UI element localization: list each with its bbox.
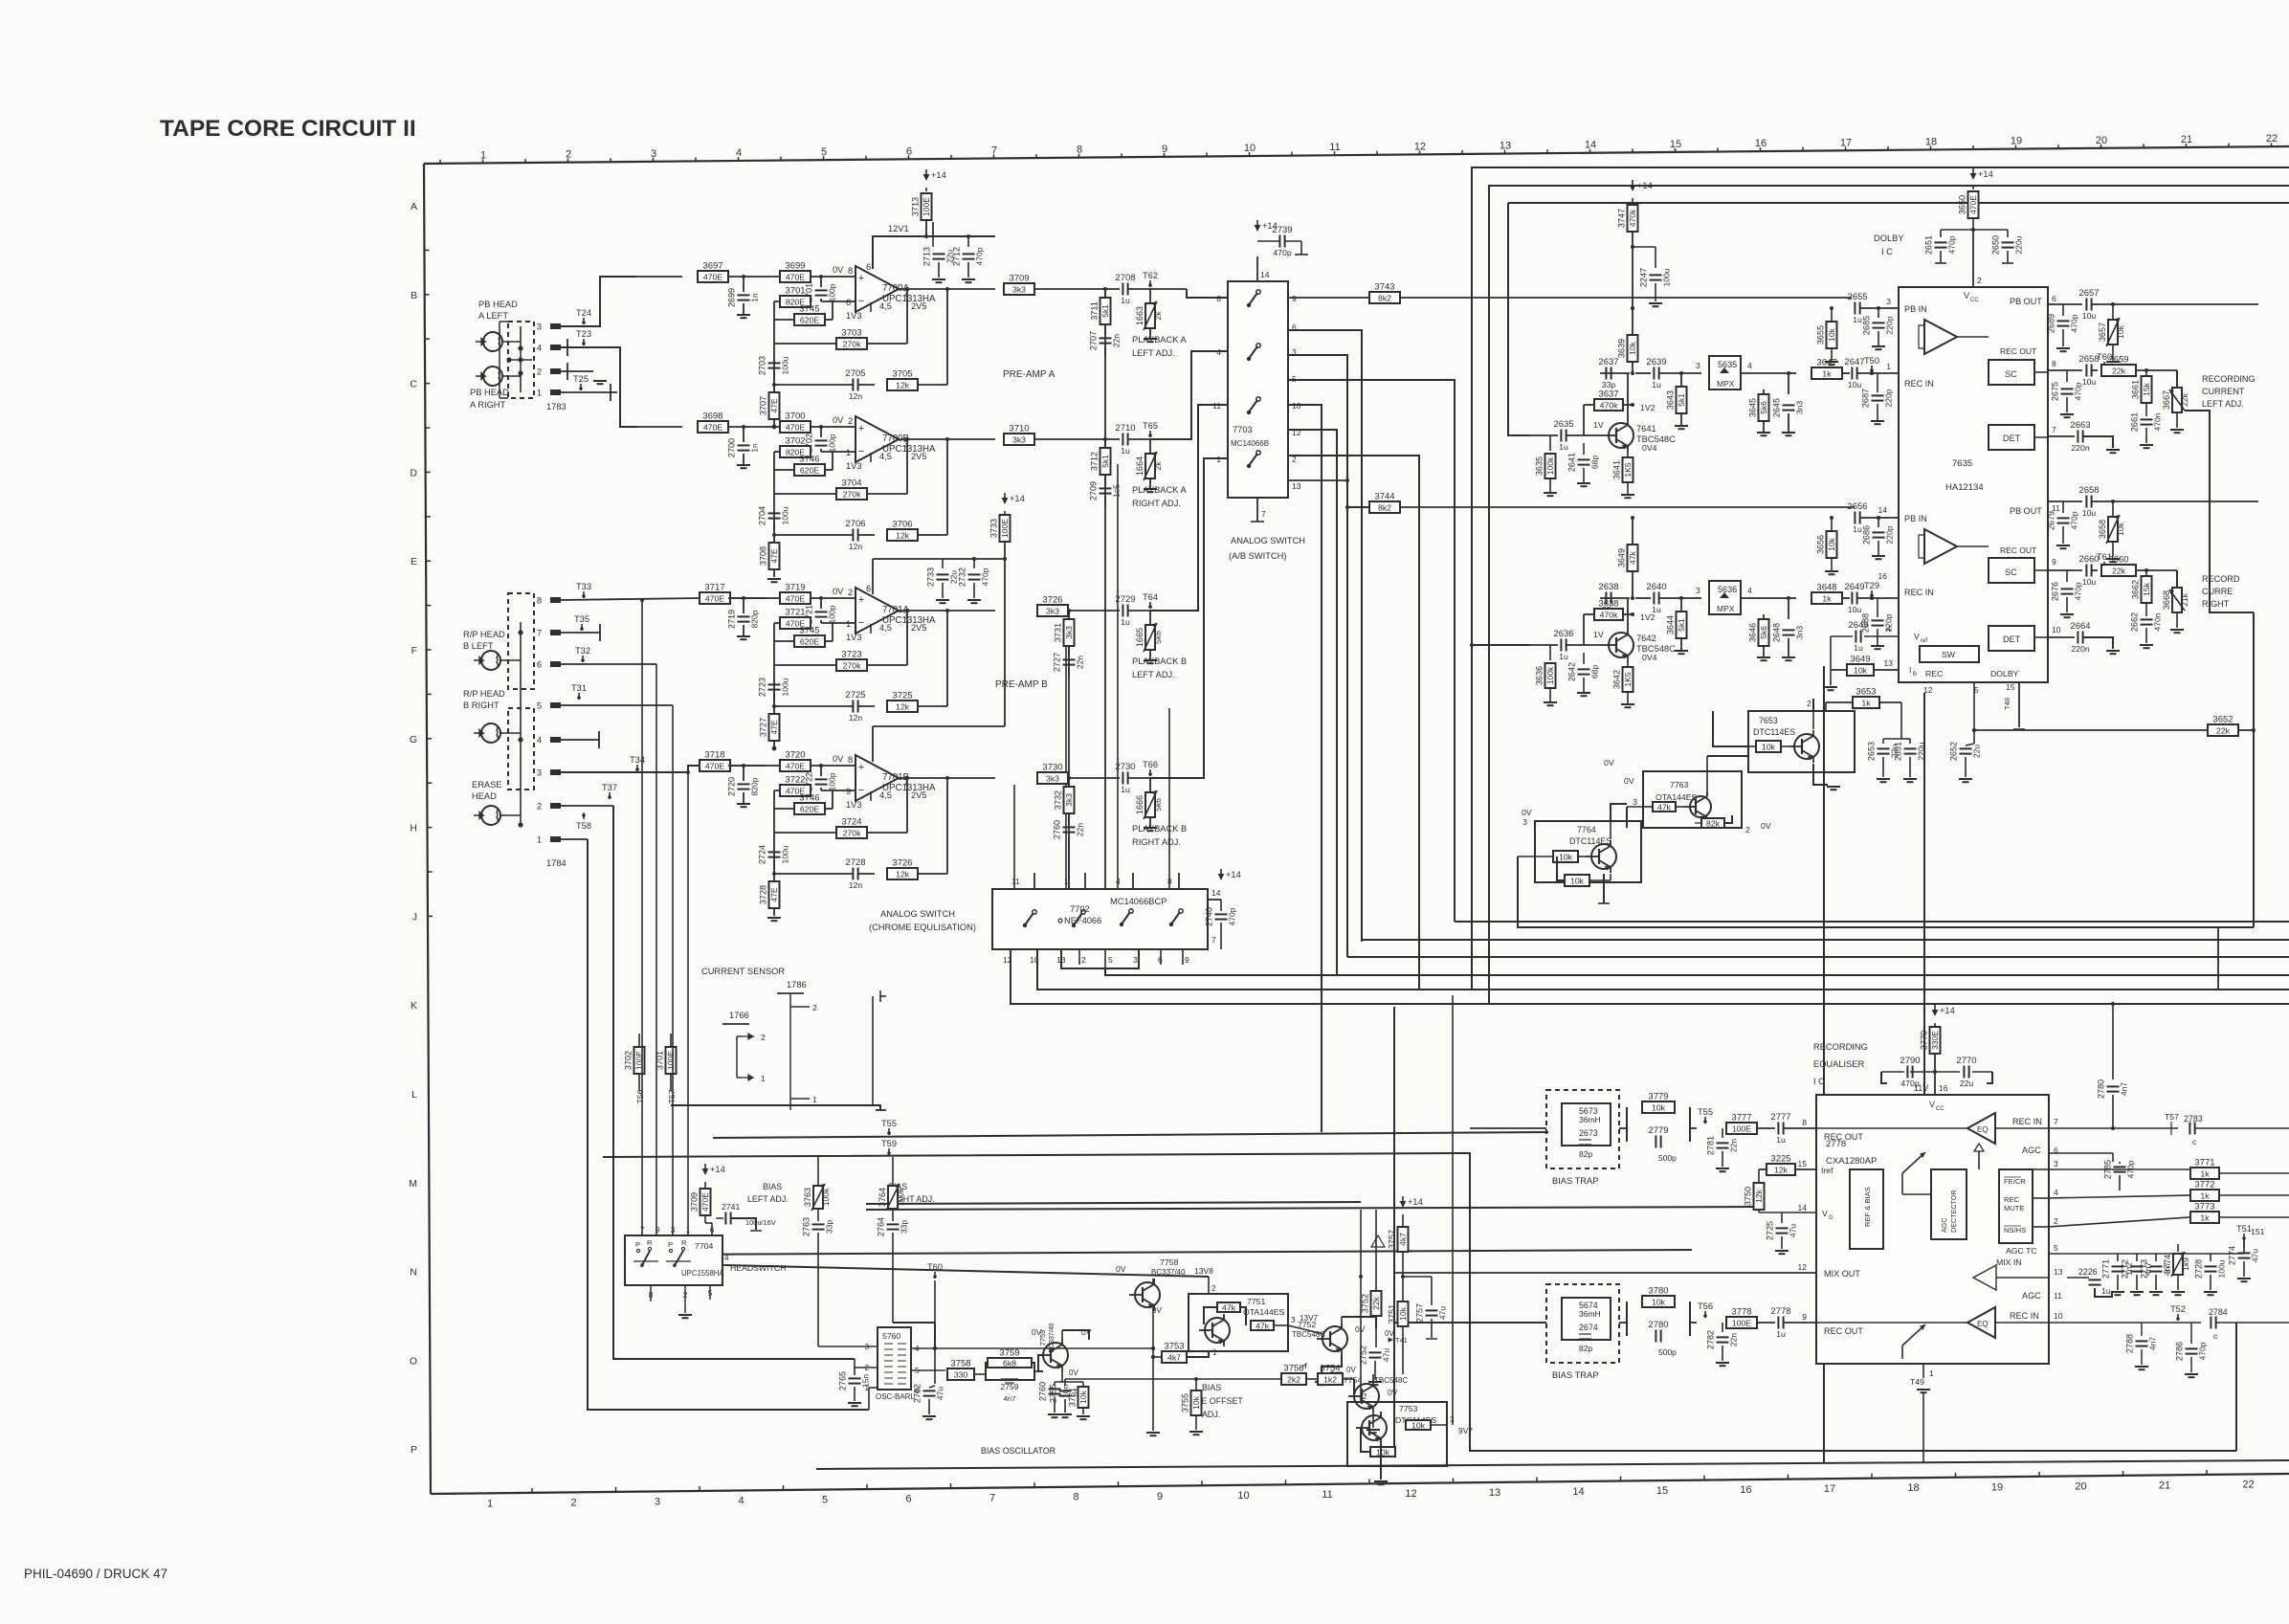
svg-text:1u: 1u bbox=[1121, 617, 1130, 627]
Dolby REC OUT pin 9 bbox=[2034, 557, 2056, 570]
svg-text:5k6: 5k6 bbox=[1759, 626, 1768, 639]
capacitor 2650 220u bbox=[1973, 230, 2024, 263]
rec eq pin 3 bbox=[2033, 1159, 2058, 1169]
svg-text:4: 4 bbox=[1747, 361, 1752, 370]
svg-text:9V7: 9V7 bbox=[1458, 1426, 1473, 1435]
svg-text:100E: 100E bbox=[1732, 1318, 1751, 1327]
svg-text:3700: 3700 bbox=[785, 412, 805, 422]
svg-text:2: 2 bbox=[848, 416, 853, 426]
svg-text:1V3: 1V3 bbox=[846, 461, 862, 471]
svg-text:3724: 3724 bbox=[841, 817, 861, 828]
Dolby REC DOLBY bottom labels bbox=[1923, 669, 2019, 695]
svg-text:+14: +14 bbox=[1637, 181, 1653, 190]
Dolby pin 2 Vcc +14 bbox=[1964, 230, 1982, 303]
svg-text:(CHROME EQULISATION): (CHROME EQULISATION) bbox=[869, 923, 976, 932]
svg-text:470E: 470E bbox=[1968, 195, 1978, 214]
svg-text:12k: 12k bbox=[896, 869, 910, 879]
wire vertical x1457 mix out bbox=[1393, 1007, 1395, 1451]
svg-text:7753: 7753 bbox=[1399, 1404, 1417, 1413]
svg-text:MIX IN: MIX IN bbox=[1996, 1257, 2022, 1267]
svg-text:2699: 2699 bbox=[727, 288, 737, 307]
svg-text:BC337/40: BC337/40 bbox=[1151, 1268, 1186, 1277]
supply rail 7701A bbox=[873, 557, 1007, 594]
svg-text:5k6: 5k6 bbox=[1759, 401, 1768, 414]
svg-text:J: J bbox=[412, 911, 417, 923]
Dolby IB pin 13 bbox=[1884, 658, 1917, 678]
left ruler scale letters A-P bbox=[409, 201, 433, 1456]
coil 5673 36mH bbox=[1562, 1103, 1611, 1146]
svg-text:82p: 82p bbox=[1579, 1149, 1592, 1159]
svg-text:BIAS TRAP: BIAS TRAP bbox=[1552, 1370, 1598, 1380]
svg-text:22u: 22u bbox=[1972, 745, 1982, 758]
svg-text:3751: 3751 bbox=[1388, 1304, 1397, 1324]
wire pin1 stub bbox=[561, 384, 617, 401]
svg-text:REC IN: REC IN bbox=[2012, 1117, 2042, 1126]
ground 2699 bbox=[737, 315, 750, 318]
svg-text:A RIGHT: A RIGHT bbox=[470, 400, 506, 410]
svg-text:BIAS TRAP: BIAS TRAP bbox=[1552, 1176, 1598, 1186]
svg-text:14: 14 bbox=[1260, 270, 1270, 279]
svg-text:REC: REC bbox=[1925, 669, 1943, 679]
wire verticals into headswitch bbox=[642, 600, 688, 1235]
wire pin3 to pre-amp 7701B input bbox=[561, 766, 700, 772]
svg-text:4: 4 bbox=[724, 1254, 729, 1262]
wire to 3719 bbox=[728, 596, 780, 600]
svg-text:20: 20 bbox=[2075, 1480, 2086, 1492]
resistor 3637 470k bbox=[1584, 389, 1634, 436]
wire chrome top vertical x1155 bbox=[1104, 949, 1106, 975]
transformer 5760 pins bbox=[864, 1343, 920, 1395]
wire recording current left loop bbox=[2185, 411, 2254, 612]
resistor 3712 5k1 bbox=[1090, 439, 1111, 475]
capacitor 2783 bbox=[2184, 1114, 2289, 1146]
resistor 3642 1K5 bbox=[1612, 653, 1657, 704]
svg-text:EQUALISER: EQUALISER bbox=[1813, 1059, 1865, 1069]
svg-text:6: 6 bbox=[2052, 294, 2056, 303]
wire T55 line bbox=[713, 1132, 1548, 1138]
capacitor 2686cap 220p bbox=[1862, 516, 1895, 556]
svg-text:620E: 620E bbox=[800, 636, 819, 646]
resistor 3711 5k1 bbox=[1090, 289, 1111, 324]
svg-text:2686: 2686 bbox=[1862, 525, 1872, 545]
svg-text:3: 3 bbox=[537, 768, 542, 778]
svg-text:0V: 0V bbox=[1385, 1329, 1394, 1338]
svg-text:2771: 2771 bbox=[2101, 1259, 2111, 1279]
capacitor 3225b/2225 12k bbox=[1759, 1212, 1782, 1213]
capacitor 2676 470p bbox=[2051, 570, 2083, 612]
svg-text:11: 11 bbox=[1011, 877, 1020, 886]
svg-text:2: 2 bbox=[537, 802, 542, 812]
+14 headswitch bbox=[702, 1164, 725, 1189]
oscillator network 3759 6k8 / 2759 4n7 bbox=[986, 1348, 1043, 1404]
svg-text:2k: 2k bbox=[1153, 311, 1163, 321]
svg-text:T24: T24 bbox=[576, 308, 591, 318]
svg-text:I C: I C bbox=[1881, 247, 1893, 256]
svg-text:2660: 2660 bbox=[2078, 554, 2099, 565]
rec eq EQ amp ch2 bbox=[1816, 1307, 1995, 1338]
svg-text:R: R bbox=[647, 1238, 653, 1247]
svg-text:PB IN: PB IN bbox=[1904, 514, 1927, 523]
svg-text:3706: 3706 bbox=[892, 520, 912, 530]
svg-text:3655: 3655 bbox=[1816, 325, 1826, 345]
svg-text:22k: 22k bbox=[2180, 392, 2189, 406]
wire PB OUT ch 2657 bbox=[2048, 303, 2082, 305]
svg-text:0V: 0V bbox=[1116, 1264, 1126, 1274]
wire band 982 bbox=[1362, 939, 2289, 941]
resistor 7763 82k bbox=[1695, 815, 1732, 828]
svg-text:100E: 100E bbox=[1732, 1123, 1751, 1133]
svg-text:3753: 3753 bbox=[1164, 1342, 1184, 1352]
capacitor 2645 3n3 bbox=[1772, 371, 1805, 433]
svg-text:2648: 2648 bbox=[1772, 623, 1782, 642]
rec eq EQ amp ch1 bbox=[1816, 1113, 1995, 1169]
svg-text:NEF4066: NEF4066 bbox=[1064, 916, 1101, 925]
wire top feedback loop 2 bbox=[1489, 186, 2289, 1004]
svg-text:RIGHT: RIGHT bbox=[2202, 599, 2230, 609]
svg-text:5635: 5635 bbox=[1718, 360, 1737, 369]
capacitor 2675 470p bbox=[2051, 370, 2083, 412]
svg-text:2723: 2723 bbox=[758, 678, 767, 697]
svg-text:1: 1 bbox=[812, 1095, 817, 1104]
svg-text:2649: 2649 bbox=[1848, 620, 1868, 631]
svg-text:PHIL-04690 / DRUCK 47: PHIL-04690 / DRUCK 47 bbox=[24, 1567, 167, 1581]
svg-text:RECORDING: RECORDING bbox=[2202, 374, 2256, 384]
resistor 3772 1k bbox=[2048, 1180, 2289, 1202]
wire pin7 stub bbox=[561, 624, 600, 641]
Dolby REC IN pin 16 bbox=[1878, 571, 1934, 597]
svg-text:270k: 270k bbox=[843, 828, 861, 837]
wire collector 7642 bbox=[1627, 598, 1629, 629]
svg-text:1784: 1784 bbox=[546, 858, 567, 868]
resistor 3710 3k3 output bbox=[1004, 424, 1120, 446]
svg-text:0V: 0V bbox=[1388, 1388, 1398, 1397]
resistor 3723 270k bbox=[774, 609, 909, 671]
capacitor 2709 1c5 bbox=[1089, 475, 1122, 506]
svg-text:3743: 3743 bbox=[1374, 282, 1394, 293]
svg-text:2725: 2725 bbox=[845, 690, 865, 701]
resistor 3699 470E bbox=[780, 261, 811, 283]
capacitor 2780 500p bbox=[1648, 1320, 1677, 1357]
svg-text:11V: 11V bbox=[1914, 1083, 1928, 1093]
svg-text:11: 11 bbox=[1322, 1489, 1332, 1501]
ground 3728 bbox=[767, 918, 781, 921]
headswitch labels bbox=[681, 1241, 786, 1278]
resistor 3730 3k3 output bbox=[1037, 763, 1120, 785]
svg-text:2741: 2741 bbox=[722, 1202, 740, 1212]
wire transformer pin4 output bbox=[911, 1346, 1155, 1350]
svg-text:2651: 2651 bbox=[1924, 235, 1934, 255]
wire 7758 emitter down bbox=[1146, 1307, 1160, 1435]
svg-text:3699: 3699 bbox=[785, 261, 805, 272]
svg-text:470p: 470p bbox=[1273, 248, 1291, 257]
svg-text:22n: 22n bbox=[1729, 1333, 1739, 1346]
svg-text:2757: 2757 bbox=[1415, 1303, 1425, 1323]
svg-text:UPC1558HA: UPC1558HA bbox=[681, 1269, 724, 1278]
rec eq REC OUT pin 9 bbox=[1802, 1312, 1863, 1336]
headswitch top pins 7 9 3 1 6 bbox=[640, 1226, 715, 1235]
resistor 3700 470E bbox=[780, 412, 811, 434]
svg-text:4: 4 bbox=[1747, 586, 1752, 595]
svg-text:13: 13 bbox=[1056, 955, 1066, 965]
svg-text:A LEFT: A LEFT bbox=[478, 311, 508, 321]
wire pot row2 to 7703 pin4 bbox=[1150, 351, 1228, 439]
R/P head B left label bbox=[463, 630, 505, 651]
test point T34 bbox=[630, 755, 645, 771]
svg-text:5: 5 bbox=[1108, 955, 1113, 965]
svg-text:P: P bbox=[635, 1240, 640, 1249]
Dolby PB IN pin 14 bbox=[1878, 505, 1927, 523]
svg-text:L: L bbox=[411, 1089, 417, 1101]
label BIAS TRAP 1 bbox=[1552, 1176, 1598, 1186]
svg-text:2651: 2651 bbox=[1894, 742, 1903, 761]
svg-text:100p: 100p bbox=[828, 605, 837, 623]
svg-text:1V: 1V bbox=[1593, 420, 1604, 430]
capacitor 2760 10n bbox=[1038, 1371, 1084, 1417]
svg-text:CURRENT: CURRENT bbox=[2202, 387, 2245, 396]
ground pin2 bbox=[593, 381, 607, 384]
wire current sensor to 1786 bbox=[671, 990, 886, 1110]
capacitor 2765 15n bbox=[838, 1368, 871, 1406]
test point T60 bbox=[2097, 352, 2112, 368]
svg-text:REC OUT: REC OUT bbox=[2000, 545, 2036, 555]
capacitor 2785 470p bbox=[2048, 1153, 2136, 1190]
wire 7703 pin3 down bbox=[1288, 355, 1347, 957]
svg-text:620E: 620E bbox=[800, 465, 819, 475]
svg-text:15k: 15k bbox=[2142, 582, 2151, 595]
wire pin3 junction bbox=[686, 770, 690, 774]
svg-text:0V: 0V bbox=[1081, 1327, 1092, 1337]
svg-text:R/P HEAD: R/P HEAD bbox=[463, 630, 505, 639]
wire collector 7641 bbox=[1627, 373, 1629, 419]
svg-text:10k: 10k bbox=[1827, 537, 1836, 550]
svg-text:+: + bbox=[858, 423, 864, 434]
resistor 3751 10k bbox=[1388, 1275, 1409, 1374]
svg-text:3n3: 3n3 bbox=[1795, 401, 1805, 414]
svg-text:1k9: 1k9 bbox=[2181, 1257, 2190, 1271]
svg-text:4: 4 bbox=[537, 736, 542, 745]
svg-text:7: 7 bbox=[2052, 425, 2056, 434]
svg-text:1u: 1u bbox=[1776, 1135, 1786, 1145]
svg-text:3k3: 3k3 bbox=[1046, 606, 1059, 615]
svg-text:47k: 47k bbox=[1256, 1321, 1270, 1330]
label PRE-AMP A bbox=[1003, 369, 1056, 380]
svg-text:10u: 10u bbox=[2082, 377, 2097, 387]
svg-text:47E: 47E bbox=[769, 548, 779, 563]
transistor 7758 BC337/40 bbox=[1116, 1257, 1213, 1315]
svg-text:3708: 3708 bbox=[759, 546, 768, 566]
rec eq REC IN pin 10 bbox=[1995, 1311, 2063, 1323]
svg-text:3758: 3758 bbox=[950, 1359, 970, 1369]
svg-text:22n: 22n bbox=[1076, 656, 1085, 669]
svg-text:2679: 2679 bbox=[2047, 511, 2056, 530]
svg-text:3759: 3759 bbox=[999, 1348, 1019, 1359]
svg-text:3648: 3648 bbox=[1816, 583, 1836, 593]
svg-text:2: 2 bbox=[848, 588, 853, 597]
capacitor 2705 12n bbox=[774, 368, 875, 401]
svg-text:2730: 2730 bbox=[1115, 762, 1135, 772]
wire 7752 collector bbox=[1342, 1317, 1376, 1328]
svg-text:10u: 10u bbox=[1848, 380, 1862, 389]
svg-text:12: 12 bbox=[1003, 955, 1012, 965]
resistor 3639 10k bbox=[1617, 306, 1638, 373]
svg-text:2712: 2712 bbox=[952, 247, 962, 266]
wire 7752 emitter T40 bbox=[1315, 1355, 1343, 1385]
resistor 3656 10k bbox=[1816, 516, 1837, 571]
svg-text:3750: 3750 bbox=[1744, 1187, 1753, 1206]
border left rule bbox=[424, 164, 431, 1494]
svg-text:470p: 470p bbox=[1228, 907, 1237, 925]
svg-text:REC OUT: REC OUT bbox=[1824, 1132, 1863, 1142]
resistor 3747 470k bbox=[1617, 205, 1638, 308]
svg-text:3: 3 bbox=[1522, 817, 1527, 827]
wire PB OUT ch 2658 bbox=[2048, 501, 2082, 502]
svg-text:220n: 220n bbox=[2071, 644, 2089, 654]
wire chrome riser pin8 bbox=[1168, 708, 1170, 889]
erase head symbol bbox=[474, 806, 500, 825]
test point T29 bbox=[1864, 581, 1879, 600]
svg-text:MPX: MPX bbox=[1717, 604, 1735, 613]
capacitor 2663 220n DET bbox=[2048, 420, 2113, 453]
test point T56 bbox=[635, 1089, 645, 1103]
svg-text:500p: 500p bbox=[1658, 1347, 1677, 1357]
resistor 3755 10k bbox=[1181, 1379, 1204, 1435]
Dolby REC OUT pin 8 bbox=[2034, 359, 2056, 372]
svg-text:2: 2 bbox=[1745, 825, 1750, 834]
svg-text:3731: 3731 bbox=[1054, 623, 1063, 642]
svg-text:3652: 3652 bbox=[2212, 715, 2233, 725]
svg-text:1k: 1k bbox=[2200, 1168, 2210, 1178]
svg-text:T49: T49 bbox=[1910, 1377, 1924, 1387]
resistor 3635 100k bbox=[1535, 435, 1556, 493]
svg-text:2636: 2636 bbox=[1553, 629, 1573, 639]
+14 feed pre-amp A bbox=[923, 169, 946, 191]
svg-text:100E: 100E bbox=[666, 1051, 676, 1070]
svg-text:6: 6 bbox=[905, 1494, 911, 1505]
svg-text:3: 3 bbox=[2054, 1159, 2058, 1168]
rec eq AGC pin 6 bbox=[2022, 1146, 2058, 1155]
svg-text:3771: 3771 bbox=[2194, 1158, 2214, 1168]
svg-text:12V1: 12V1 bbox=[888, 224, 909, 234]
capacitor 2649 10u bbox=[1842, 582, 1899, 614]
capacitor 2771 1n2 bbox=[2101, 1254, 2134, 1295]
wire chrome eq bus 3 bbox=[1011, 949, 2289, 1004]
svg-text:3642: 3642 bbox=[1612, 670, 1622, 689]
wire 7703 pin9 output A bbox=[1288, 297, 1369, 299]
svg-text:3659: 3659 bbox=[2108, 355, 2128, 366]
svg-text:3745: 3745 bbox=[799, 304, 819, 315]
label 1784 bbox=[546, 858, 567, 868]
svg-text:5: 5 bbox=[2054, 1243, 2058, 1253]
rec eq pin 2 bbox=[2033, 1216, 2058, 1227]
svg-text:3712: 3712 bbox=[1090, 452, 1100, 471]
svg-text:2783: 2783 bbox=[2184, 1114, 2203, 1123]
svg-text:T62: T62 bbox=[1143, 271, 1158, 280]
svg-text:10u: 10u bbox=[1848, 605, 1862, 614]
svg-text:7: 7 bbox=[1211, 935, 1216, 945]
svg-text:3: 3 bbox=[1696, 361, 1700, 370]
svg-text:47u: 47u bbox=[1382, 1348, 1391, 1362]
svg-text:V: V bbox=[1929, 1100, 1936, 1109]
svg-text:R: R bbox=[681, 1238, 687, 1247]
svg-text:3668: 3668 bbox=[2162, 590, 2171, 610]
svg-text:4,5: 4,5 bbox=[879, 623, 892, 633]
svg-text:3: 3 bbox=[1291, 1316, 1296, 1324]
capacitor 2651b 220u bbox=[1894, 739, 1926, 782]
svg-text:3703: 3703 bbox=[841, 328, 861, 339]
svg-text:22n: 22n bbox=[1729, 1139, 1739, 1152]
ground 1665 bbox=[1144, 660, 1157, 663]
resistor 3733 100E bbox=[989, 515, 1011, 726]
transistor 7642 TBC548C bbox=[1593, 612, 1676, 661]
capacitor 2732 470p bbox=[958, 557, 990, 598]
svg-text:2640: 2640 bbox=[1646, 582, 1666, 592]
svg-text:CURRE: CURRE bbox=[2202, 587, 2233, 596]
svg-text:100k: 100k bbox=[896, 1188, 905, 1206]
svg-text:A: A bbox=[411, 201, 417, 212]
capacitor 2703 100u bbox=[758, 356, 790, 375]
svg-text:3710: 3710 bbox=[1009, 424, 1029, 434]
label PLAYBACK B bbox=[1132, 824, 1187, 847]
svg-text:100u: 100u bbox=[781, 845, 790, 863]
svg-text:T58: T58 bbox=[576, 821, 591, 831]
svg-text:10k: 10k bbox=[2116, 324, 2125, 338]
wire 7764 base stub bbox=[1518, 856, 1535, 857]
Dolby PB IN pin 3 bbox=[1886, 297, 1927, 314]
resistor 3652 22k bbox=[2208, 715, 2256, 737]
svg-text:3: 3 bbox=[1696, 586, 1700, 595]
svg-text:4: 4 bbox=[537, 344, 542, 353]
svg-text:1: 1 bbox=[537, 835, 542, 845]
rec eq AGC pin 11 bbox=[2022, 1291, 2062, 1301]
capacitor 2647 10u bbox=[1842, 357, 1899, 389]
svg-text:3658: 3658 bbox=[2098, 520, 2107, 539]
svg-text:2752: 2752 bbox=[1359, 1346, 1368, 1365]
svg-text:4n7: 4n7 bbox=[2120, 1082, 2129, 1096]
svg-text:1k: 1k bbox=[2200, 1212, 2210, 1222]
wire vertical right edge x2337 bbox=[2235, 1323, 2237, 1451]
svg-text:10k: 10k bbox=[1411, 1420, 1426, 1430]
resistor 3727 47E bbox=[759, 704, 780, 748]
svg-text:P: P bbox=[411, 1444, 417, 1456]
svg-text:D: D bbox=[410, 467, 417, 478]
wire vertical right edge x2355 bbox=[2253, 612, 2255, 927]
resistor 3225 12k bbox=[1759, 1154, 1816, 1176]
resistor 3771 1k bbox=[2048, 1158, 2289, 1180]
svg-text:3746: 3746 bbox=[799, 455, 819, 465]
svg-text:2689: 2689 bbox=[2047, 314, 2056, 333]
label BIAS TRAP 2 bbox=[1552, 1370, 1598, 1380]
resistor 7751 47k top bbox=[1204, 1302, 1240, 1324]
svg-text:T48: T48 bbox=[2003, 698, 2011, 710]
top ruler scale numbers 1-22 bbox=[440, 133, 2278, 164]
wire to op-amp + input bbox=[811, 425, 856, 429]
wire pin6 down bbox=[561, 663, 656, 665]
label RECORDING bbox=[2202, 374, 2256, 409]
capacitor 2655 1u PB in bbox=[1847, 292, 1899, 324]
resistor 3638 470k bbox=[1584, 599, 1634, 646]
svg-text:3725: 3725 bbox=[892, 691, 912, 701]
svg-text:0V: 0V bbox=[1346, 1366, 1356, 1374]
svg-text:ANALOG SWITCH: ANALOG SWITCH bbox=[880, 909, 955, 919]
svg-text:3747: 3747 bbox=[1617, 209, 1627, 228]
wire pin5 to caps bbox=[2067, 1240, 2244, 1254]
svg-text:PB HEAD: PB HEAD bbox=[470, 388, 509, 397]
svg-text:1u: 1u bbox=[1652, 380, 1661, 389]
svg-text:7: 7 bbox=[1261, 509, 1266, 519]
resistor 3703 270k bbox=[774, 287, 909, 349]
svg-text:1u: 1u bbox=[1121, 446, 1130, 456]
svg-text:4,5: 4,5 bbox=[879, 301, 892, 311]
